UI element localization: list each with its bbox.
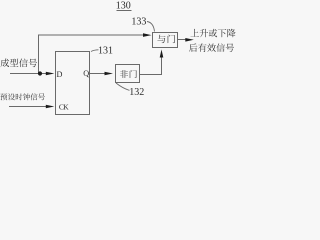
junction dot [38, 71, 42, 75]
svg-text:Q: Q [83, 69, 89, 78]
arrowhead D input [46, 72, 55, 76]
svg-text:130: 130 [116, 1, 131, 12]
wire 预设时钟信号 to CK [9, 106, 46, 108]
wire junction to AND input [39, 35, 144, 74]
svg-text:132: 132 [129, 87, 144, 98]
svg-text:CK: CK [59, 102, 69, 111]
AND gate U133 与门 box [153, 33, 178, 48]
leader 132 [116, 83, 130, 90]
net label line1 上升或下降 [191, 29, 199, 37]
arrowhead AND bottom input [160, 50, 164, 58]
svg-text:133: 133 [131, 16, 146, 27]
leader 131 [91, 50, 99, 52]
node 成型信号 label [0, 59, 9, 68]
svg-text:D: D [57, 70, 63, 79]
wire NOT output to AND bottom input [140, 56, 162, 75]
leader 133 [147, 22, 155, 32]
arrowhead output [185, 38, 194, 42]
wire Q to NOT [90, 73, 105, 75]
wire 成型信号 to D [10, 73, 46, 75]
wire AND output [178, 39, 187, 41]
D flip-flop U131 box [56, 52, 90, 115]
NOT gate U132 非门 box [116, 65, 140, 83]
arrowhead CK input [46, 105, 55, 109]
svg-text:131: 131 [98, 45, 113, 56]
arrowhead NOT input [105, 72, 114, 76]
node 预设时钟信号 label [0, 93, 7, 100]
net label line2 后有效信号 [189, 43, 197, 51]
arrowhead AND input [143, 33, 152, 37]
